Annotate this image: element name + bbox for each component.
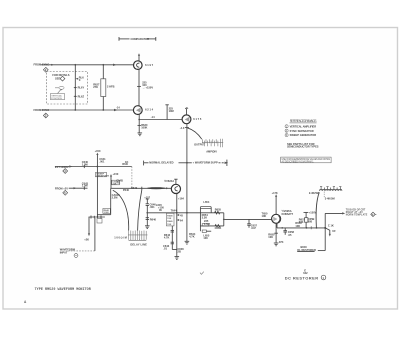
svg-text:1.5M: 1.5M	[82, 162, 88, 166]
selector network bar	[89, 216, 105, 224]
output capacitor C658 stub	[283, 228, 294, 237]
grid riser +150 with C642	[110, 172, 120, 188]
plate lead above tube3	[185, 108, 188, 115]
svg-text:DC RESTORER: DC RESTORER	[285, 275, 319, 280]
wire C to tube3	[139, 115, 182, 119]
delay line curve 1	[113, 190, 129, 230]
svg-text:COMPARATOR: COMPARATOR	[131, 37, 150, 41]
svg-text:R646: R646	[150, 217, 157, 221]
tube V634 (third tube)	[182, 115, 202, 124]
+150 riser at node	[95, 149, 107, 166]
wire B (second input line)	[34, 105, 134, 112]
svg-text:FOR DETAILS: FOR DETAILS	[52, 73, 69, 77]
second input row: from +2V	[55, 181, 89, 190]
pin tap 3 on bus	[74, 94, 85, 98]
svg-text:TYPE RM529 WAVEFORM MONITOR: TYPE RM529 WAVEFORM MONITOR	[35, 288, 92, 292]
svg-text:15K: 15K	[167, 218, 171, 220]
svg-text:1K: 1K	[125, 160, 128, 164]
wire E (normal delayed trig label line)	[144, 160, 229, 166]
svg-text:+107: +107	[144, 195, 150, 199]
tube4 cathode cluster box	[166, 213, 183, 226]
ground at bottom of tube3 cathode line	[185, 241, 190, 244]
svg-text:.001: .001	[150, 205, 156, 209]
svg-text:REFERENCE DRAWINGS: REFERENCE DRAWINGS	[290, 119, 317, 123]
svg-text:→ +150V: → +150V	[142, 86, 153, 90]
svg-text:2-3K/5M: 2-3K/5M	[309, 191, 319, 195]
svg-text:4.7K: 4.7K	[189, 235, 195, 239]
delay line termination comb	[114, 231, 147, 247]
output terminal strip	[194, 139, 223, 154]
pickoff winding T658	[309, 187, 342, 201]
tube4 cathode lead down to ground	[177, 194, 184, 257]
tube5 cathode to ground with R650	[268, 223, 283, 244]
plate RC network riser (C646)	[144, 195, 156, 225]
svg-text:AMP/DIV: AMP/DIV	[206, 150, 217, 154]
pin tap 1 on bus	[76, 76, 85, 83]
left cathode branch with R and C	[163, 226, 177, 250]
svg-text:+178: +178	[272, 191, 278, 195]
svg-text:L645: L645	[156, 203, 162, 207]
svg-text:22K: 22K	[113, 184, 117, 186]
svg-text:100: 100	[203, 236, 208, 240]
svg-text:2 HFB: 2 HFB	[107, 85, 115, 89]
vertical position box inside dashed box	[51, 94, 65, 100]
wire G (cathode output line)	[277, 221, 325, 229]
resistor R657 riser	[299, 210, 317, 228]
svg-text:15K: 15K	[167, 224, 171, 226]
svg-text:POSITION: POSITION	[51, 98, 62, 100]
node reference diamond 3	[43, 113, 48, 118]
svg-text:642: 642	[303, 271, 308, 275]
svg-text:WAVEFORM: WAVEFORM	[96, 175, 109, 178]
svg-text:.001: .001	[99, 160, 105, 164]
wire: vertical bus inside dashed box	[74, 65, 76, 110]
to-back arrow line	[325, 208, 368, 228]
wire to tube5 grid	[223, 212, 272, 221]
svg-text:6197: 6197	[145, 63, 154, 67]
svg-text:SWEEP GENERATOR: SWEEP GENERATOR	[290, 133, 317, 137]
svg-text:+150: +150	[113, 172, 119, 176]
svg-text:DELAY LINE: DELAY LINE	[130, 243, 147, 247]
svg-text:10M: 10M	[169, 109, 174, 113]
svg-text:FROM SYNC: FROM SYNC	[34, 108, 50, 112]
svg-text:-14: -14	[116, 105, 120, 109]
svg-text:+164: +164	[178, 197, 184, 201]
curve from winding to wire G	[316, 192, 319, 228]
pin tap 2 on bus	[74, 86, 85, 90]
voltage note box	[281, 157, 331, 163]
svg-text:AS DESCRIBED IN DIAGRAM 1: AS DESCRIBED IN DIAGRAM 1	[282, 160, 315, 163]
wire down to waveform input arrow	[84, 217, 90, 242]
svg-text:+150: +150	[95, 149, 101, 153]
tube V624 (second tube)	[133, 106, 153, 115]
series resistor R655 on wire D	[215, 207, 222, 214]
tube V695A (output cathode follower)	[272, 209, 294, 224]
svg-text:C65A: C65A	[215, 226, 222, 230]
svg-text:6214: 6214	[145, 108, 154, 112]
svg-text:+ WAVEFORM SUPP: + WAVEFORM SUPP	[193, 161, 218, 165]
svg-text:R640: R640	[131, 186, 138, 190]
wire tube1 to tube2 with +150V tap	[137, 69, 153, 106]
node reference diamond 4	[63, 169, 68, 174]
svg-text:SYNC SEPARATOR: SYNC SEPARATOR	[290, 129, 314, 133]
svg-text:C 1K: C 1K	[328, 224, 334, 228]
dashed detail box (for details see 2)	[47, 72, 88, 105]
svg-text:SEMICONDUCTOR TYPES: SEMICONDUCTOR TYPES	[287, 145, 319, 149]
svg-text:27K: 27K	[93, 85, 98, 89]
ground below C646	[145, 226, 150, 229]
svg-text:2B: 2B	[178, 250, 181, 254]
svg-text:50K: 50K	[299, 220, 304, 224]
tube V614A (top comparator tube)	[134, 53, 154, 69]
delay line curve 2	[138, 190, 142, 231]
svg-text:-14: -14	[151, 115, 155, 119]
neon stub on wire C	[165, 105, 173, 120]
svg-text:.047: .047	[251, 226, 257, 230]
svg-text:+2K: +2K	[84, 238, 89, 242]
svg-text:X: X	[79, 78, 81, 82]
svg-text:.05: .05	[288, 233, 292, 237]
svg-text:6175: 6175	[193, 117, 202, 121]
svg-text:1.5M: 1.5M	[82, 184, 88, 188]
wire loop to DL restorer	[318, 228, 325, 251]
svg-text:+150V: +150V	[309, 210, 317, 214]
svg-text:RL6Y: RL6Y	[78, 86, 85, 90]
svg-text:INPUT: INPUT	[60, 250, 68, 254]
svg-text:UF: UF	[332, 229, 336, 233]
svg-text:6U8/6AT7: 6U8/6AT7	[282, 212, 294, 216]
cathode line below tube3 (long vertical)	[180, 124, 196, 242]
svg-text:R648: R648	[167, 214, 173, 217]
svg-text:P640: P640	[123, 188, 130, 192]
svg-text:10K: 10K	[268, 235, 273, 239]
svg-text:100K: 100K	[141, 126, 147, 130]
svg-text:FROM +2V: FROM +2V	[55, 187, 68, 191]
node reference diamond 5	[63, 190, 68, 195]
svg-text:NORM TEMPLATE: NORM TEMPLATE	[346, 213, 368, 216]
svg-text:3.3K: 3.3K	[202, 216, 208, 220]
connector P640-B stub	[116, 160, 132, 189]
wire D (plate line)	[146, 203, 223, 214]
tube V644 (delay line driver)	[164, 179, 184, 201]
svg-text:10K: 10K	[262, 214, 267, 218]
node circle E	[371, 212, 377, 216]
peaking coil lens on wire F	[148, 188, 166, 189]
svg-text:R649: R649	[167, 220, 173, 223]
svg-text:OUTPUT: OUTPUT	[194, 143, 205, 147]
svg-text:L654: L654	[203, 200, 209, 204]
potentiometer inside dashed box	[55, 86, 64, 93]
svg-text:R655: R655	[215, 207, 222, 211]
title E642 DC RESTORER	[285, 269, 326, 281]
svg-text:NORMAL DELAYED: NORMAL DELAYED	[149, 161, 173, 165]
svg-text:EXT HORIZ: EXT HORIZ	[55, 165, 69, 169]
svg-text:4.7K: 4.7K	[164, 236, 170, 240]
curve from tube3 to output strip	[187, 128, 202, 139]
COMPARATOR bracket	[119, 37, 156, 41]
series peaking ladder: L654	[200, 200, 211, 219]
lower branch C654	[200, 213, 223, 240]
svg-text:3-4K/5M: 3-4K/5M	[325, 197, 335, 201]
svg-text:1.5M: 1.5M	[104, 212, 109, 214]
svg-text:-4.3: -4.3	[180, 126, 185, 130]
svg-text:680: 680	[308, 220, 313, 224]
svg-text:RL6Z: RL6Z	[78, 94, 85, 98]
resistor R627	[93, 65, 114, 110]
pen check mark	[200, 272, 204, 275]
grid capacitor C657 stub	[247, 219, 257, 230]
svg-text:47K: 47K	[279, 240, 284, 244]
tube5 plate riser to +150	[272, 191, 278, 214]
wire F (grid line to tube4)	[97, 186, 171, 215]
svg-text:T644: T644	[171, 209, 177, 213]
wire A (from sync, top input line)	[34, 63, 134, 67]
svg-text:FROM SYNC: FROM SYNC	[34, 63, 50, 67]
wire E2 (ext input line)	[55, 160, 132, 169]
svg-text:VERTICAL AMPLIFIER: VERTICAL AMPLIFIER	[290, 124, 317, 128]
svg-text:10K: 10K	[295, 224, 300, 228]
svg-text:2.2M: 2.2M	[112, 196, 118, 200]
output node with arrow to -150	[324, 224, 336, 237]
svg-text:100Ω/M: 100Ω/M	[114, 235, 127, 239]
svg-text:IN: IN	[159, 208, 162, 212]
waveform input connector	[60, 218, 95, 257]
reference drawings notes	[285, 119, 319, 149]
ground below tube V624	[138, 114, 148, 135]
svg-text:½V624A: ½V624A	[164, 179, 174, 183]
svg-text:VERTICAL: VERTICAL	[51, 94, 62, 97]
svg-text:.01: .01	[163, 246, 167, 250]
DL restorer label	[297, 245, 316, 252]
wire down from node to selector network	[95, 167, 109, 217]
node reference diamond 2	[43, 67, 48, 72]
